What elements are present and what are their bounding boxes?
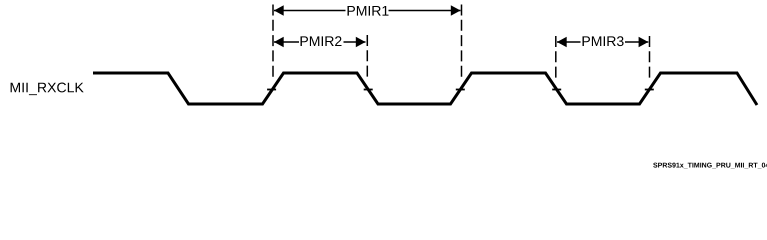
- dashed guide line at rising edge 2: [461, 5, 463, 81]
- dimension PMIR1 line right segment: [389, 10, 461, 12]
- label PMIR1: [348, 6, 389, 16]
- dimension PMIR1 line left segment: [274, 10, 346, 12]
- dimension PMIR3 right arrowhead: [639, 37, 649, 48]
- dimension PMIR3 line left segment: [557, 41, 581, 43]
- label PMIR3: [583, 36, 624, 46]
- tick mark rising edge 1: [267, 89, 276, 91]
- dimension PMIR2 left arrowhead: [274, 37, 284, 48]
- dimension PMIR1 right arrowhead: [451, 5, 461, 16]
- wire waveform MII_RXCLK clock: [93, 73, 757, 105]
- dashed guide line at rising edge 1: [272, 5, 274, 81]
- dimension PMIR1 left arrowhead: [274, 5, 284, 16]
- dimension PMIR3 left arrowhead: [557, 37, 567, 48]
- signal label MII_RXCLK: [11, 83, 84, 96]
- dimension PMIR2 right arrowhead: [356, 37, 366, 48]
- tick mark falling edge 2: [364, 89, 373, 91]
- label PMIR2: [301, 36, 342, 46]
- dimension PMIR3 line right segment: [625, 41, 648, 43]
- footer figure id SPRS91x_TIMING_PRU_MII_RT_04: [653, 163, 767, 169]
- tick mark falling edge 3: [552, 89, 561, 91]
- dimension PMIR2 line left segment: [274, 41, 299, 43]
- dimension PMIR2 line right segment: [344, 41, 366, 43]
- dashed guide line at falling edge 3: [555, 36, 557, 80]
- tick mark rising edge 3: [645, 89, 654, 91]
- dashed guide line at rising edge 3: [649, 36, 651, 80]
- dashed guide line at falling edge 2: [366, 35, 368, 80]
- tick mark rising edge 2: [456, 89, 465, 91]
